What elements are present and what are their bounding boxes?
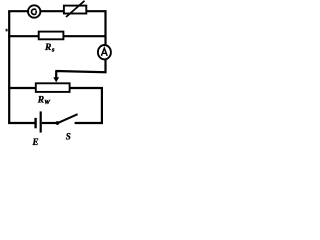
- battery E (long positive plate): [40, 111, 42, 132]
- battery E (short negative plate): [34, 118, 36, 128]
- wire: battery to switch: [42, 122, 56, 124]
- switch S pivot dot: [56, 121, 60, 125]
- resistor Rs: [39, 32, 64, 40]
- wire: bottom row left segment: [8, 122, 35, 124]
- switch S lever: [57, 114, 77, 123]
- variable resistor R' (box with diagonal arrow): [64, 6, 86, 14]
- wire: top row middle segment: [41, 10, 64, 12]
- galvanometer G: [28, 5, 40, 17]
- svg-text:R: R: [37, 96, 44, 106]
- svg-text:R: R: [44, 43, 51, 53]
- wire: second row left segment: [8, 35, 39, 37]
- junction speck on left bus: [6, 29, 8, 32]
- svg-text:E: E: [32, 137, 39, 146]
- wire: switch to bottom-right corner: [75, 122, 103, 124]
- rheostat RW (box): [36, 83, 70, 92]
- svg-text:W: W: [44, 99, 50, 106]
- wire: ammeter bottom down, left along y=71.6, to rheostat wiper: [56, 59, 105, 78]
- wire: left vertical bus: [8, 11, 10, 123]
- svg-text:S: S: [66, 131, 71, 141]
- wire: second row right segment (tees into right vertical): [63, 35, 105, 37]
- ammeter A: [98, 45, 111, 59]
- wire: top row right segment + right vertical down to ammeter: [87, 10, 106, 45]
- background: [0, 0, 119, 146]
- wire: rheostat row left segment: [8, 87, 36, 89]
- wire: top row left segment: [8, 10, 28, 12]
- wire: rheostat row right segment + right vertical down to bottom: [69, 87, 102, 123]
- svg-text:s: s: [51, 46, 55, 53]
- wiper arrowhead onto rheostat: [53, 77, 59, 82]
